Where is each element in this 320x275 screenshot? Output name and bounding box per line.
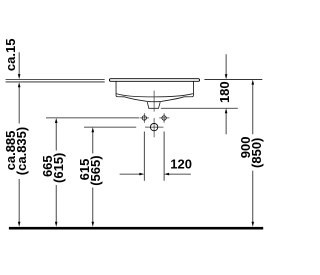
svg-text:(565): (565) xyxy=(88,155,103,185)
svg-text:(ca.835): (ca.835) xyxy=(14,127,29,175)
bolt hole right crosshair xyxy=(163,113,165,123)
svg-text:120: 120 xyxy=(170,157,192,172)
label halo ca.885 xyxy=(4,124,28,180)
dim 120 line left part xyxy=(120,173,141,175)
dim 180 lower shaft xyxy=(225,112,227,135)
extension line right at countertop level xyxy=(204,78,262,80)
label halo 615 xyxy=(79,154,102,188)
dim 120 line right part xyxy=(167,173,191,175)
countertop left (double line) xyxy=(6,78,105,80)
dim ca.15 upper shaft xyxy=(18,52,20,75)
dim ca.885 line xyxy=(18,86,20,224)
basin flange xyxy=(109,79,199,82)
label halo 665 xyxy=(42,151,65,186)
centerline xyxy=(153,91,155,112)
svg-text:ca.15: ca.15 xyxy=(3,39,18,72)
basin inner bowl arc xyxy=(116,94,192,97)
extension line left at bolt level xyxy=(46,117,139,119)
dim 665 line xyxy=(55,121,57,223)
svg-text:(850): (850) xyxy=(249,138,264,168)
dim 900 line xyxy=(252,83,254,224)
drain trapezoid xyxy=(147,102,160,108)
dim 615 line xyxy=(92,131,94,224)
extension line left at trap level xyxy=(84,126,136,128)
extension line right at drain level xyxy=(161,107,238,109)
svg-text:(615): (615) xyxy=(51,153,66,183)
basin outer walls and bottom curve xyxy=(116,81,193,101)
label halo 900 xyxy=(240,134,262,171)
svg-text:180: 180 xyxy=(217,81,232,103)
drain hole circle xyxy=(150,123,157,130)
dim 120 extension lines xyxy=(143,132,145,181)
dim 180 upper shaft xyxy=(225,54,227,75)
bolt hole left circle xyxy=(142,116,146,120)
floor line xyxy=(9,227,263,230)
bolt hole right circle xyxy=(162,116,166,120)
bolt hole left crosshair xyxy=(143,113,145,123)
drain hole crosshair xyxy=(153,118,155,137)
